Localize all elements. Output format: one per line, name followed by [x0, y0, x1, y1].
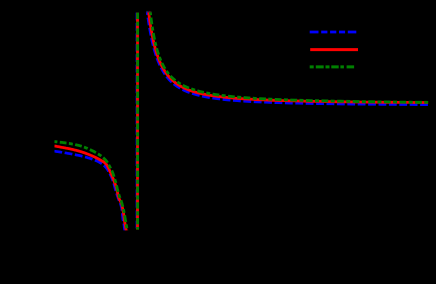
curve 2 red solid right branch	[149, 12, 429, 103]
dim AA stubs at top clip edge	[146, 11, 148, 13]
legend line blue dashed	[310, 31, 357, 34]
curve 3 green dash-dot left branch	[54, 142, 127, 232]
curve 1 blue dashed right branch	[147, 12, 428, 105]
curve 1 blue dashed left branch	[54, 151, 125, 231]
legend line green dash-dot	[310, 65, 355, 68]
curve 3 green dash-dot right branch	[150, 12, 428, 102]
vertical asymptote blue dashed	[136, 13, 139, 230]
vertical asymptote red solid	[136, 13, 139, 230]
vertical asymptote green dash-dot	[136, 13, 139, 230]
curve 2 red solid left branch	[54, 146, 126, 231]
legend line red solid	[310, 48, 358, 51]
